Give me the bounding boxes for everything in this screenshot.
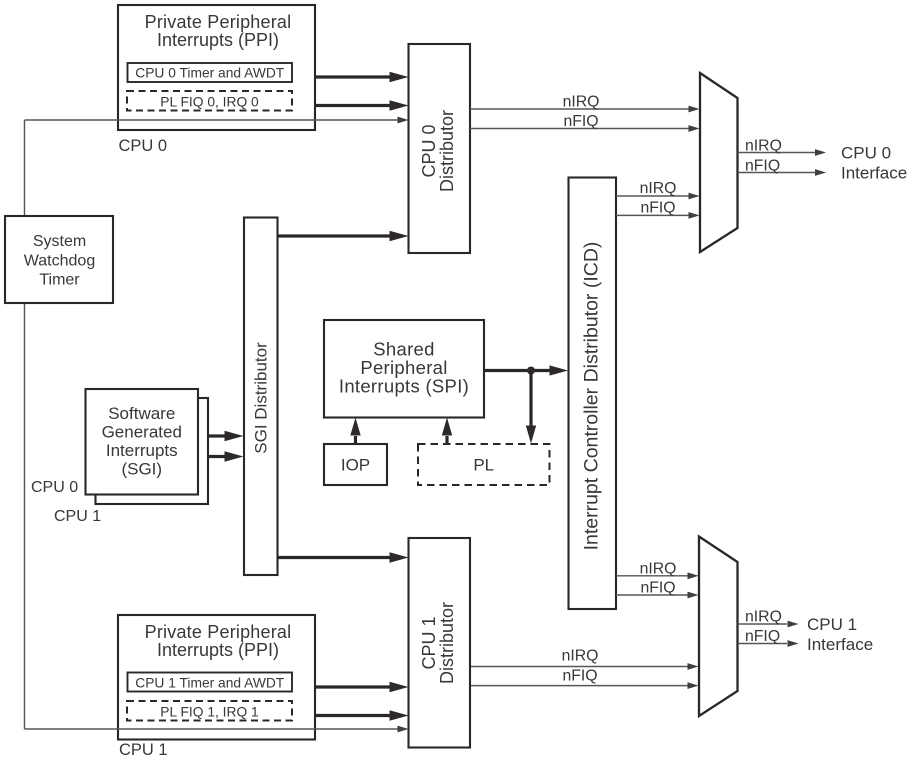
- thick arrow SGI dist to CPU1 dist: [278, 556, 391, 559]
- SGI distributor box: [244, 218, 278, 576]
- svg-text:IOP: IOP: [341, 456, 370, 475]
- CPU 0 distributor box: [409, 44, 471, 253]
- svg-text:CPU 0: CPU 0: [841, 144, 891, 163]
- svg-text:Interrupts (PPI): Interrupts (PPI): [157, 30, 279, 50]
- PL FIQ 0 IRQ 0 dashed box: [127, 91, 292, 111]
- CPU 0 Timer and AWDT box: [128, 63, 293, 82]
- svg-text:PL FIQ 1, IRQ 1: PL FIQ 1, IRQ 1: [160, 704, 258, 719]
- svg-text:nFIQ: nFIQ: [563, 113, 598, 130]
- svg-text:SGI Distributor: SGI Distributor: [252, 342, 271, 454]
- ICD box: [569, 178, 617, 610]
- svg-text:CPU 0: CPU 0: [419, 124, 439, 177]
- svg-text:Interrupts: Interrupts: [106, 441, 178, 460]
- PL FIQ 1 IRQ 1 dashed box: [127, 701, 292, 721]
- svg-text:CPU 0 Timer and AWDT: CPU 0 Timer and AWDT: [135, 66, 285, 81]
- system watchdog timer box: [5, 216, 113, 303]
- svg-text:nIRQ: nIRQ: [745, 609, 782, 626]
- CPU0 dist nFIQ wire: [470, 128, 689, 130]
- svg-text:Interrupts (PPI): Interrupts (PPI): [157, 640, 279, 660]
- svg-text:nFIQ: nFIQ: [640, 199, 675, 216]
- svg-text:CPU 1: CPU 1: [54, 508, 101, 525]
- svg-text:Private Peripheral: Private Peripheral: [145, 622, 292, 642]
- SPI box: [324, 320, 484, 418]
- wire watchdog to CPU0 distributor: [25, 119, 399, 121]
- ICD top nFIQ wire: [616, 214, 689, 216]
- mux1 nIRQ out: [738, 152, 816, 154]
- svg-text:CPU 1 Timer and AWDT: CPU 1 Timer and AWDT: [135, 675, 285, 690]
- SGI front box (CPU 0): [86, 389, 199, 495]
- svg-text:Interface: Interface: [807, 635, 873, 654]
- svg-text:Interface: Interface: [841, 164, 907, 183]
- svg-text:PL FIQ 0, IRQ 0: PL FIQ 0, IRQ 0: [160, 94, 259, 109]
- thick arrow PPI0 timer to distributor: [315, 75, 390, 78]
- CPU1 dist nFIQ wire: [470, 685, 688, 687]
- svg-text:nFIQ: nFIQ: [562, 667, 597, 684]
- SGI back box (CPU 1): [96, 398, 209, 504]
- svg-text:nIRQ: nIRQ: [562, 648, 599, 665]
- svg-text:nIRQ: nIRQ: [563, 93, 600, 110]
- svg-text:(SGI): (SGI): [121, 460, 162, 479]
- mux 2: [699, 537, 738, 717]
- arrow PL to SPI: [445, 436, 448, 444]
- svg-text:Generated: Generated: [102, 423, 182, 442]
- thick arrows SGI to SGI distributor: [208, 434, 226, 437]
- CPU1 dist nIRQ wire: [470, 666, 688, 668]
- svg-text:CPU 1: CPU 1: [807, 615, 857, 634]
- CPU 1 distributor box: [409, 538, 471, 748]
- PPI CPU0 box: [118, 5, 315, 130]
- junction node: [527, 367, 535, 375]
- svg-text:Software: Software: [108, 404, 175, 423]
- PL dashed box: [418, 444, 550, 485]
- svg-text:nIRQ: nIRQ: [640, 560, 677, 577]
- svg-text:System: System: [33, 233, 86, 250]
- CPU0 dist nIRQ wire: [470, 108, 689, 110]
- CPU 1 Timer and AWDT box: [128, 673, 293, 692]
- wire SPI to ICD: [484, 369, 550, 372]
- ICD bottom nIRQ wire: [616, 575, 688, 577]
- ICD top nIRQ wire: [616, 195, 689, 197]
- svg-text:CPU 0: CPU 0: [119, 137, 168, 155]
- svg-text:Private Peripheral: Private Peripheral: [145, 12, 292, 32]
- wire watchdog to CPU1 distributor: [25, 728, 399, 730]
- ICD bottom nFIQ wire: [616, 594, 688, 596]
- svg-text:CPU 1: CPU 1: [119, 741, 168, 759]
- svg-text:Watchdog: Watchdog: [24, 253, 95, 270]
- svg-text:Distributor: Distributor: [437, 602, 457, 684]
- mux1 nFIQ out: [738, 172, 816, 174]
- svg-text:nIRQ: nIRQ: [640, 180, 677, 197]
- mux 1: [700, 73, 738, 252]
- arrow IOP to SPI: [354, 436, 357, 444]
- svg-text:nFIQ: nFIQ: [745, 628, 780, 645]
- IOP box: [324, 444, 387, 485]
- svg-text:Interrupt Controller Distribut: Interrupt Controller Distributor (ICD): [581, 242, 603, 551]
- mux2 nIRQ out: [738, 623, 788, 625]
- svg-text:nFIQ: nFIQ: [640, 580, 675, 597]
- wire watchdog vertical: [24, 120, 26, 729]
- svg-text:nIRQ: nIRQ: [745, 137, 782, 154]
- svg-text:Distributor: Distributor: [437, 110, 457, 192]
- svg-text:Timer: Timer: [39, 272, 80, 289]
- svg-text:PL: PL: [473, 456, 494, 475]
- thick arrow SGI dist to CPU0 dist: [278, 234, 391, 237]
- thick arrow PPI0 PL to distributor: [315, 104, 390, 107]
- wire junction down to PL: [529, 371, 532, 427]
- PPI CPU1 box: [118, 615, 315, 740]
- mux2 nFIQ out: [738, 643, 788, 645]
- svg-text:Interrupts (SPI): Interrupts (SPI): [339, 375, 469, 396]
- svg-text:nFIQ: nFIQ: [745, 157, 780, 174]
- svg-text:CPU 1: CPU 1: [419, 616, 439, 669]
- svg-text:CPU 0: CPU 0: [31, 479, 78, 496]
- thick arrow PPI1 timer to distributor: [315, 685, 390, 688]
- thick arrow PPI1 PL to distributor: [315, 714, 390, 717]
